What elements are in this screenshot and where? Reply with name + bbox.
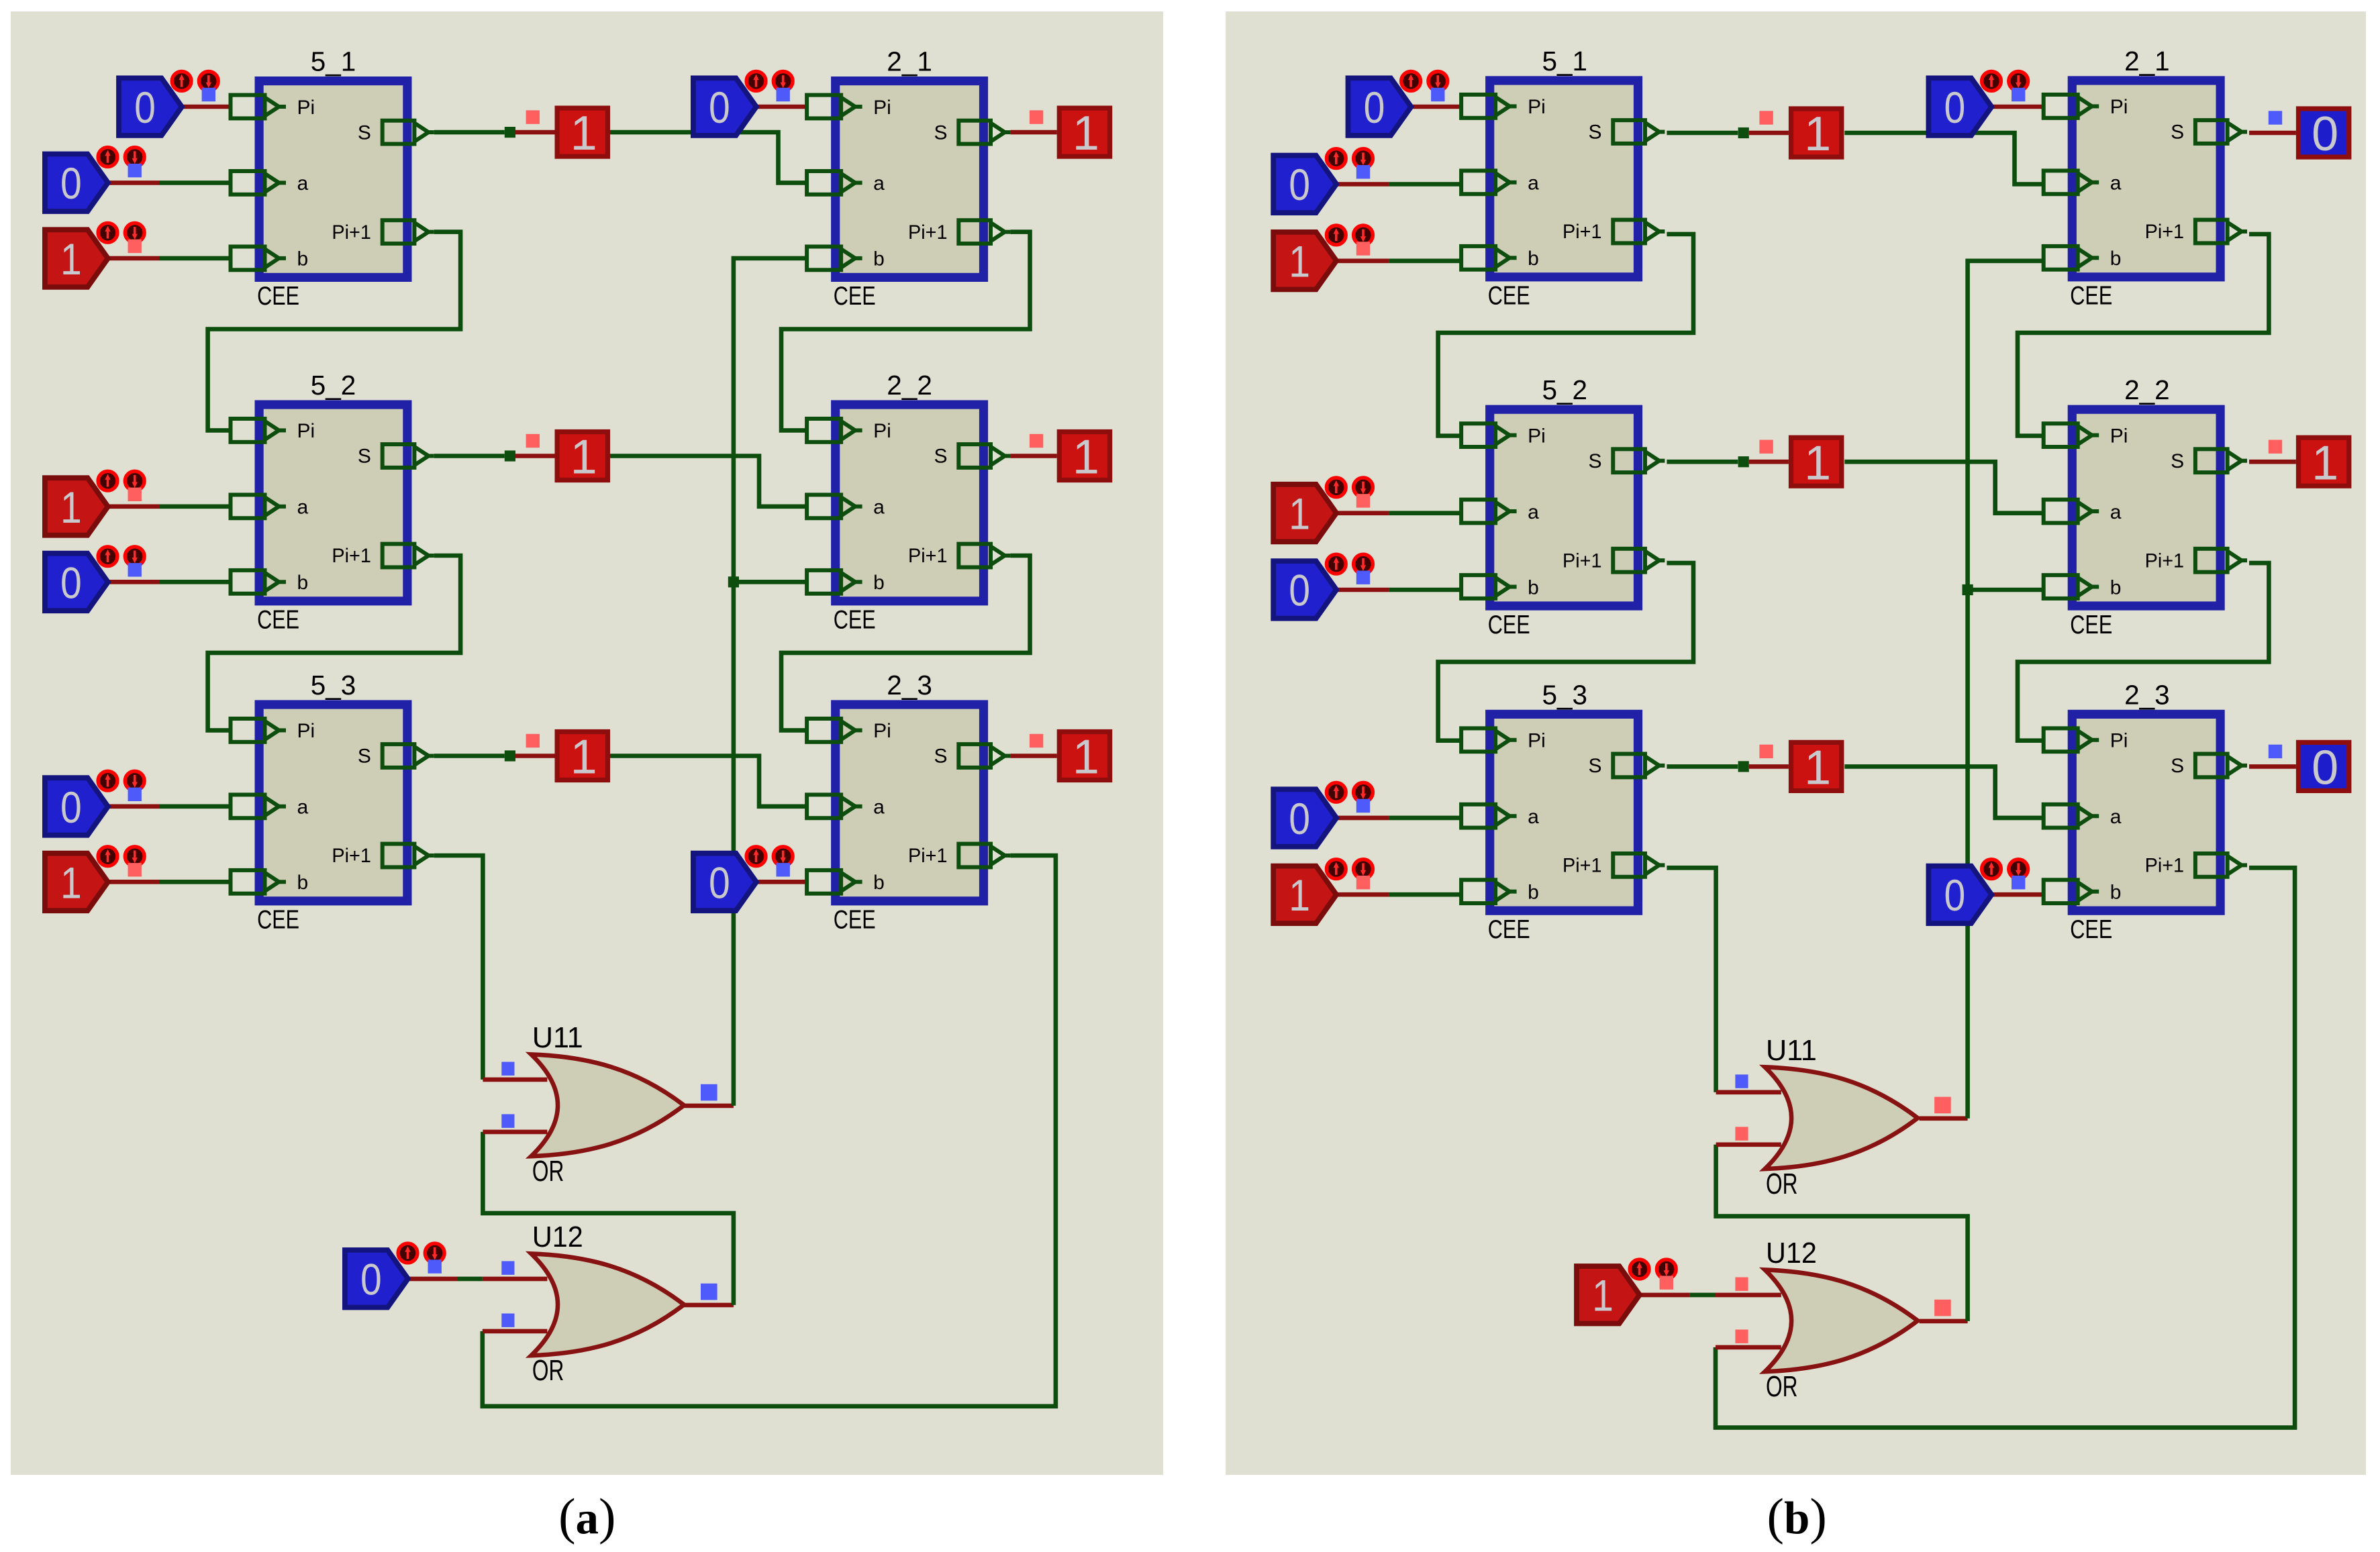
OR gate U11 (b): [1765, 1067, 1918, 1169]
svg-text:2_3: 2_3: [887, 670, 932, 701]
logic probe 1: S of 5_3 (a): [557, 731, 607, 784]
wire: S of 2_2 to logic probe (a): [1010, 455, 1056, 456]
svg-text:2_1: 2_1: [2124, 46, 2170, 76]
wire: Pi+1 of 5_3 to U11 input 1 (b): [1667, 868, 1716, 1092]
wire: S of 5_1 to junction (b): [1667, 132, 1738, 134]
wire: Pi+1 of 2_2 to Pi of 2_3 (a): [781, 556, 1030, 730]
wire: logic input to a of 5_1 (b): [1337, 183, 1389, 185]
logic input 0: U12 input (a): [345, 1243, 444, 1307]
logic probe 1: S of 5_3 (b): [1791, 741, 1842, 795]
CEE adder block 5_1 (a): [231, 81, 434, 311]
wire: probe row 2 to a input of 2_2 (a): [610, 456, 807, 507]
indicator square: U12 input 2 (b): [1735, 1330, 1748, 1343]
wire: logic input to Pi of 2_1 (a): [756, 106, 807, 107]
logic probe 0: S of 2_1 (b): [2299, 107, 2349, 161]
logic input 1: a of 5_2 (b): [1273, 478, 1373, 541]
wire: probe row 1 to a input of 2_1 (b): [1844, 133, 2043, 185]
wire: S of 2_3 to logic probe (a): [1010, 755, 1056, 756]
indicator square: U11 output (b): [1934, 1097, 1951, 1114]
CEE adder block 5_2 (b): [1461, 409, 1665, 639]
wire: junction to logic probe row 1 (b): [1749, 132, 1789, 134]
wire: Pi+1 of 2_3 feedback to U12 input 2 (a): [483, 856, 1056, 1406]
junction: S of 5_1 (a): [505, 127, 515, 138]
panel (a) background: [11, 11, 1163, 1475]
wire: probe row 1 to a input of 2_1 (a): [610, 132, 807, 183]
logic input 0: b of 2_3 (a): [693, 847, 793, 911]
svg-text:2_3: 2_3: [2124, 679, 2170, 710]
indicator square: S of 5_2 (a): [526, 434, 540, 448]
wire: logic input to a of 5_3 (b): [1337, 817, 1389, 819]
junction: trunk / b of 2_2 (b): [1963, 584, 1973, 595]
indicator square: S of 5_1 (b): [1759, 111, 1773, 124]
CEE adder block 2_2 (b): [2044, 409, 2247, 639]
indicator square: S of 2_1 (b): [2269, 111, 2282, 124]
logic probe 1: S of 5_1 (a): [557, 107, 607, 160]
svg-text:U11: U11: [532, 1022, 583, 1054]
wire: S of 2_2 to logic probe (b): [2249, 461, 2296, 462]
wire: logic input to Pi of 5_1 (b): [1412, 106, 1461, 107]
wire: Pi+1 of 2_1 to Pi of 2_2 (a): [781, 232, 1030, 431]
logic input 0: Pi of 5_1 (a): [119, 72, 218, 136]
svg-text:U12: U12: [1766, 1237, 1817, 1270]
svg-text:5_3: 5_3: [1542, 679, 1588, 710]
svg-text:5_2: 5_2: [1542, 374, 1588, 405]
svg-text:U11: U11: [1766, 1035, 1817, 1067]
CEE adder block 2_3 (a): [807, 705, 1010, 935]
wire: Pi+1 of 2_3 feedback to U12 input 2 (b): [1716, 868, 2295, 1427]
wire: logic input to b of 5_1 (a): [108, 258, 159, 259]
logic input 0: b of 5_2 (b): [1273, 554, 1373, 618]
logic input 0: Pi of 2_1 (a): [693, 72, 793, 136]
svg-text:2_2: 2_2: [2124, 374, 2170, 405]
wire: logic input to U12 input 1 (a): [408, 1278, 457, 1280]
panel (b) background: [1226, 11, 2366, 1475]
svg-text:2_1: 2_1: [887, 46, 932, 77]
indicator square: S of 2_2 (b): [2269, 440, 2282, 454]
svg-text:2_2: 2_2: [887, 370, 932, 401]
logic input 0: a of 5_1 (b): [1273, 149, 1373, 213]
svg-text:(b): (b): [1767, 1488, 1827, 1545]
svg-text:(a): (a): [558, 1488, 615, 1545]
indicator square: U12 input 2 (a): [501, 1314, 514, 1327]
logic input 0: b of 5_2 (a): [45, 547, 144, 611]
svg-text:5_1: 5_1: [1542, 46, 1588, 76]
logic input 1: a of 5_2 (a): [45, 471, 144, 535]
indicator square: U11 input 2 (a): [501, 1115, 514, 1128]
indicator square: S of 5_1 (a): [526, 110, 540, 123]
indicator square: U12 input 1 (a): [501, 1261, 514, 1275]
svg-text:5_2: 5_2: [311, 370, 356, 401]
junction: trunk / b of 2_2 (a): [728, 576, 739, 587]
wire: Pi+1 of 5_2 to Pi of 5_3 (b): [1438, 563, 1693, 741]
wire: S of 5_1 to junction (a): [434, 132, 505, 133]
OR gate U11 (a): [531, 1054, 684, 1156]
logic input 1: b of 5_1 (b): [1273, 225, 1373, 289]
wire: U11 output trunk to b of 2_1 and 2_2 (b): [1920, 1118, 1968, 1119]
logic input 1: b of 5_3 (a): [45, 847, 144, 911]
OR gate U12 (a): [531, 1253, 684, 1355]
wire: S of 5_2 to junction (a): [434, 455, 505, 456]
wire: logic input to b of 2_3 (a): [756, 881, 807, 882]
CEE adder block 2_2 (a): [807, 405, 1010, 635]
logic input 0: a of 5_3 (b): [1273, 782, 1373, 846]
indicator square: U12 output (b): [1934, 1300, 1951, 1316]
indicator square: S of 2_3 (b): [2269, 745, 2282, 758]
logic probe 0: S of 2_3 (b): [2299, 741, 2349, 795]
wire: S of 5_3 to junction (a): [434, 755, 505, 756]
junction: S of 5_2 (b): [1738, 456, 1749, 467]
junction: S of 5_3 (a): [505, 750, 515, 761]
svg-text:U12: U12: [532, 1221, 583, 1253]
svg-text:OR: OR: [1766, 1168, 1797, 1200]
wire: S of 2_3 to logic probe (b): [2249, 766, 2296, 767]
wire: trunk branch to b of 2_2 (a): [734, 581, 807, 582]
wire: junction to logic probe row 2 (a): [515, 455, 555, 456]
wire: U12 output to U11 input 2 (a): [684, 1304, 734, 1306]
CEE adder block 2_1 (b): [2044, 81, 2247, 311]
logic input 0: Pi of 5_1 (b): [1348, 72, 1448, 136]
wire: trunk branch to b of 2_2 (b): [1968, 589, 2044, 590]
wire: logic input to b of 5_2 (a): [108, 581, 159, 582]
wire: logic input to Pi of 5_1 (a): [182, 106, 230, 107]
wire: S of 5_2 to junction (b): [1667, 461, 1738, 462]
wire: junction to logic probe row 2 (b): [1749, 461, 1789, 462]
wire: S of 5_3 to junction (b): [1667, 766, 1738, 767]
logic input 0: Pi of 2_1 (b): [1928, 72, 2028, 136]
logic probe 1: S of 5_1 (b): [1791, 107, 1842, 161]
indicator square: U11 output (a): [701, 1084, 717, 1101]
logic probe 1: S of 5_2 (b): [1791, 436, 1842, 490]
wire: logic input to b of 5_3 (a): [108, 881, 159, 882]
indicator square: S of 5_2 (b): [1759, 440, 1773, 454]
logic input 0: a of 5_1 (a): [45, 148, 144, 211]
indicator square: S of 2_3 (a): [1030, 734, 1043, 747]
wire: logic input to Pi of 2_1 (b): [1993, 106, 2044, 107]
wire: probe row 2 to a input of 2_2 (b): [1844, 462, 2043, 513]
junction: S of 5_2 (a): [505, 450, 515, 461]
svg-text:OR: OR: [1766, 1371, 1797, 1403]
logic input 1: b of 5_3 (b): [1273, 860, 1373, 923]
wire: Pi+1 of 2_1 to Pi of 2_2 (b): [2018, 234, 2269, 436]
svg-text:5_3: 5_3: [311, 670, 356, 701]
logic input 1: U12 input (b): [1577, 1259, 1676, 1323]
wire: logic input to b of 2_3 (b): [1993, 894, 2044, 895]
CEE adder block 2_3 (b): [2044, 714, 2247, 944]
indicator square: S of 5_3 (b): [1759, 745, 1773, 758]
logic probe 1: S of 2_1 (a): [1059, 107, 1109, 160]
indicator square: U12 output (a): [701, 1284, 717, 1300]
wire: logic input to U12 input 1 (b): [1640, 1294, 1690, 1296]
wire: Pi+1 of 2_2 to Pi of 2_3 (b): [2018, 563, 2269, 741]
wire: logic input to a of 5_1 (a): [108, 182, 159, 183]
wire: logic input to b of 5_2 (b): [1337, 589, 1389, 590]
wire: Pi+1 of 5_3 to U11 input 1 (a): [434, 856, 483, 1080]
junction: S of 5_3 (b): [1738, 761, 1749, 772]
indicator square: U11 input 1 (b): [1735, 1074, 1748, 1088]
CEE adder block 2_1 (a): [807, 81, 1010, 311]
svg-text:OR: OR: [532, 1355, 564, 1387]
wire: junction to logic probe row 1 (a): [515, 132, 555, 133]
wire: logic input to a of 5_2 (a): [108, 506, 159, 507]
wire: logic input to a of 5_3 (a): [108, 806, 159, 807]
logic input 0: a of 5_3 (a): [45, 771, 144, 835]
svg-text:5_1: 5_1: [311, 46, 356, 77]
junction: S of 5_1 (b): [1738, 127, 1749, 138]
CEE adder block 5_3 (b): [1461, 714, 1665, 944]
wire: U12 output to U11 input 2 (b): [1920, 1321, 1968, 1322]
wire: S of 2_1 to logic probe (a): [1010, 132, 1056, 133]
wire: logic input to b of 5_3 (b): [1337, 894, 1389, 895]
logic input 1: b of 5_1 (a): [45, 223, 144, 287]
indicator square: U11 input 2 (b): [1735, 1127, 1748, 1140]
CEE adder block 5_3 (a): [231, 705, 434, 935]
indicator square: S of 5_3 (a): [526, 734, 540, 747]
indicator square: S of 2_1 (a): [1030, 110, 1043, 123]
wire: U11 output trunk to b of 2_1 and 2_2 (a): [684, 1105, 734, 1106]
logic probe 1: S of 2_3 (a): [1059, 731, 1109, 784]
wire: probe row 3 to a input of 2_3 (a): [610, 756, 807, 807]
CEE adder block 5_1 (b): [1461, 81, 1665, 311]
logic input 0: b of 2_3 (b): [1928, 860, 2028, 923]
indicator square: U11 input 1 (a): [501, 1062, 514, 1076]
wire: logic input to a of 5_2 (b): [1337, 513, 1389, 514]
logic probe 1: S of 2_2 (b): [2299, 436, 2349, 490]
logic probe 1: S of 2_2 (a): [1059, 431, 1109, 484]
wire: Pi+1 of 5_1 to Pi of 5_2 (a): [208, 232, 461, 431]
wire: junction to logic probe row 3 (b): [1749, 766, 1789, 767]
CEE adder block 5_2 (a): [231, 405, 434, 635]
OR gate U12 (b): [1765, 1270, 1918, 1372]
wire: S of 2_1 to logic probe (b): [2249, 132, 2296, 134]
wire: probe row 3 to a input of 2_3 (b): [1844, 766, 2043, 818]
indicator square: S of 2_2 (a): [1030, 434, 1043, 448]
wire: logic input to b of 5_1 (b): [1337, 260, 1389, 262]
wire: Pi+1 of 5_2 to Pi of 5_3 (a): [208, 556, 461, 730]
wire: junction to logic probe row 3 (a): [515, 755, 555, 756]
logic probe 1: S of 5_2 (a): [557, 431, 607, 484]
wire: Pi+1 of 5_1 to Pi of 5_2 (b): [1438, 234, 1693, 436]
svg-text:OR: OR: [532, 1155, 564, 1188]
indicator square: U12 input 1 (b): [1735, 1278, 1748, 1291]
